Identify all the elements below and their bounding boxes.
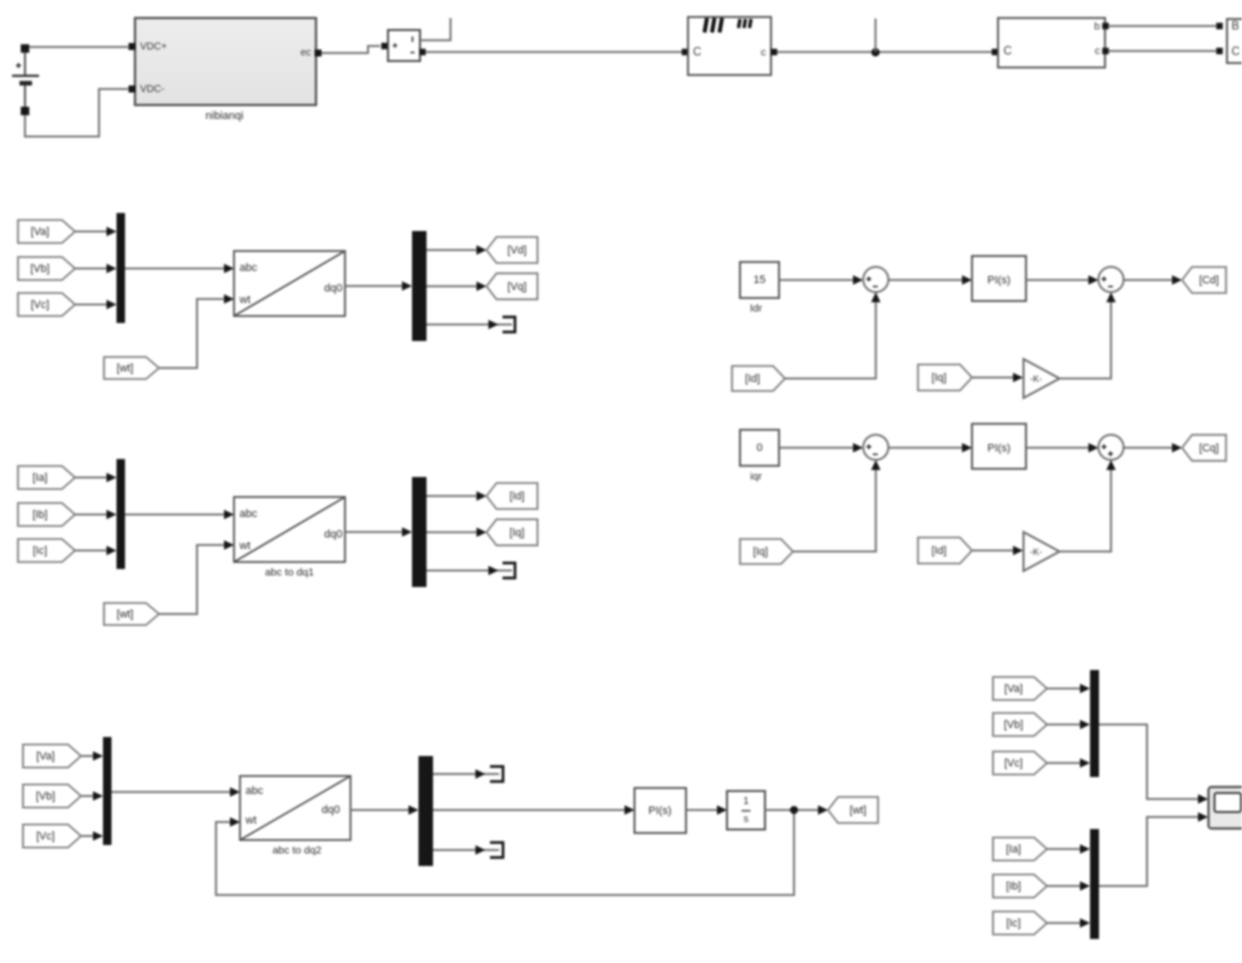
svg-text:PI(s): PI(s) [648,805,671,817]
svg-text:C: C [693,47,701,59]
svg-text:[Ib]: [Ib] [1006,881,1021,893]
svg-text:C: C [1232,46,1240,58]
svg-text:[Vb]: [Vb] [30,263,49,275]
svg-text:PI(s): PI(s) [987,275,1010,287]
svg-text:[Cd]: [Cd] [1199,275,1219,287]
svg-text:B: B [1232,21,1240,33]
svg-text:VDC+: VDC+ [140,42,167,53]
svg-text:ec: ec [300,48,311,59]
svg-text:[Vc]: [Vc] [1004,758,1023,770]
svg-text:[Ia]: [Ia] [32,472,47,484]
svg-text:[Vc]: [Vc] [36,831,55,843]
svg-text:Idr: Idr [750,303,763,315]
svg-text:nibianqi: nibianqi [206,110,244,122]
svg-text:[Iq]: [Iq] [753,546,768,558]
svg-text:iqr: iqr [750,470,762,482]
svg-text:dq0: dq0 [324,529,342,541]
svg-text:abc to dq1: abc to dq1 [265,567,314,579]
svg-text:[Vc]: [Vc] [31,299,50,311]
svg-text:[Id]: [Id] [509,491,524,503]
svg-text:dq0: dq0 [324,283,342,295]
svg-text:abc: abc [240,508,258,520]
svg-text:-K-: -K- [1030,547,1042,557]
svg-text:15: 15 [753,274,765,286]
svg-text:[wt]: [wt] [117,363,134,375]
svg-text:[Va]: [Va] [36,751,54,763]
svg-text:c: c [1095,45,1100,57]
svg-text:[wt]: [wt] [850,805,867,817]
svg-text:[Vb]: [Vb] [36,791,55,803]
svg-text:[Id]: [Id] [745,373,760,385]
svg-text:s: s [744,814,749,825]
svg-text:c: c [761,47,766,59]
svg-text:dq0: dq0 [322,804,340,816]
svg-text:abc: abc [240,262,258,274]
svg-text:VDC-: VDC- [140,84,164,95]
svg-text:[Va]: [Va] [1004,683,1022,695]
svg-text:[Iq]: [Iq] [931,372,946,384]
svg-text:wt: wt [245,815,257,827]
svg-text:wt: wt [239,540,251,552]
svg-text:[Ic]: [Ic] [1006,918,1020,930]
svg-text:-K-: -K- [1030,374,1042,384]
svg-text:[Iq]: [Iq] [509,527,524,539]
svg-text:[Va]: [Va] [31,226,49,238]
svg-text:abc: abc [246,785,264,797]
svg-text:C: C [1004,46,1012,58]
svg-text:[Vd]: [Vd] [507,245,526,257]
svg-text:PI(s): PI(s) [987,442,1010,454]
svg-text:[Ib]: [Ib] [32,509,47,521]
svg-text:0: 0 [756,442,762,454]
svg-text:[Ic]: [Ic] [33,545,47,557]
svg-text:[wt]: [wt] [117,609,134,621]
svg-text:b: b [1094,21,1100,33]
svg-text:[Cq]: [Cq] [1199,442,1219,454]
svg-text:wt: wt [239,294,251,306]
svg-text:abc to dq2: abc to dq2 [272,845,321,857]
svg-text:[Vq]: [Vq] [507,281,526,293]
svg-text:[Ia]: [Ia] [1006,844,1021,856]
svg-text:[Vb]: [Vb] [1004,719,1023,731]
svg-text:[Id]: [Id] [931,545,946,557]
svg-text:1: 1 [743,796,749,807]
